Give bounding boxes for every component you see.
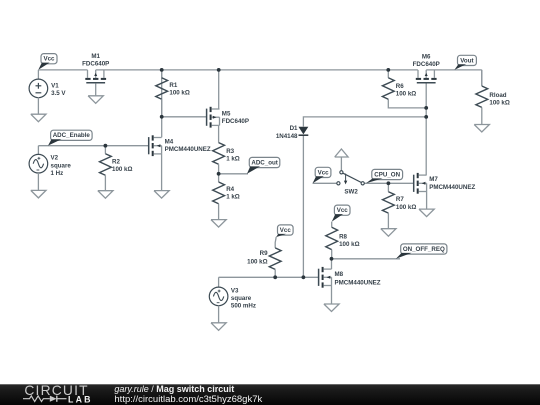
- wire Vout rail end bend: [481, 70, 483, 86]
- svg-text:R7: R7: [396, 196, 404, 203]
- wire ADC_out stub: [219, 173, 248, 175]
- svg-text:ADC_Enable: ADC_Enable: [53, 132, 91, 139]
- wire ADC_Enable net: [38, 146, 148, 155]
- svg-text:M8: M8: [335, 271, 344, 278]
- label R1 value: [169, 82, 189, 97]
- wire R6 bottom bend: [388, 99, 426, 108]
- svg-text:M4: M4: [165, 139, 174, 146]
- resistor Rload: [476, 70, 488, 125]
- svg-text:PMCM440UNEZ: PMCM440UNEZ: [165, 146, 211, 153]
- svg-text:Vout: Vout: [460, 57, 473, 64]
- svg-text:square: square: [231, 295, 252, 302]
- svg-text:1N4148: 1N4148: [276, 133, 298, 140]
- resistor R7: [383, 183, 395, 228]
- svg-text:V1: V1: [51, 83, 59, 90]
- resistor R6: [382, 70, 394, 99]
- svg-text:LAB: LAB: [68, 394, 93, 404]
- wire V1 top: [37, 70, 39, 79]
- wire D1 top bend: [303, 117, 426, 127]
- svg-text:http://circuitlab.com/c3t5hyz6: http://circuitlab.com/c3t5hyz68gk7k: [114, 394, 262, 405]
- net flag Vcc at V1: [38, 54, 57, 70]
- svg-text:M5: M5: [222, 110, 231, 117]
- svg-text:1 Hz: 1 Hz: [51, 170, 64, 177]
- wire M8 drain riser: [331, 259, 333, 269]
- svg-text:CPU_ON: CPU_ON: [374, 171, 400, 178]
- transistor M8: [319, 267, 332, 288]
- voltage source V3: [209, 287, 228, 306]
- label R6 value: [396, 83, 416, 98]
- svg-text:Vcc: Vcc: [280, 227, 292, 234]
- svg-text:Vcc: Vcc: [337, 207, 349, 214]
- resistor R3: [213, 125, 225, 173]
- wire ON_OFF_REQ stub: [332, 258, 401, 260]
- label Rload value: [489, 92, 509, 107]
- ground under R4: [211, 220, 226, 228]
- svg-text:FDC640P: FDC640P: [413, 61, 440, 68]
- ground under R2: [98, 191, 113, 199]
- svg-text:PMCM440UNEZ: PMCM440UNEZ: [429, 184, 475, 191]
- voltage source V1: [29, 79, 48, 98]
- svg-text:100 kΩ: 100 kΩ: [339, 241, 359, 248]
- ground under V3: [211, 306, 226, 331]
- transistor M6: [416, 70, 437, 83]
- svg-text:1 kΩ: 1 kΩ: [226, 194, 240, 201]
- svg-text:R4: R4: [226, 186, 234, 193]
- wire CPU_ON net: [364, 182, 413, 184]
- ground under Rload: [474, 125, 489, 133]
- diode D1: [299, 127, 309, 135]
- svg-text:100 kΩ: 100 kΩ: [169, 89, 189, 96]
- svg-text:square: square: [51, 162, 72, 169]
- svg-text:FDC640P: FDC640P: [82, 61, 109, 68]
- wire SW2 left contact: [313, 182, 337, 184]
- svg-text:M7: M7: [429, 176, 438, 183]
- wire Vcc to R9: [275, 237, 276, 248]
- ground under M7: [419, 192, 434, 217]
- label R9 value: [247, 250, 268, 266]
- svg-text:100 kΩ: 100 kΩ: [489, 100, 509, 107]
- resistor R4: [213, 174, 225, 220]
- wire Vcc top rail middle segment: [96, 69, 418, 71]
- svg-text:R6: R6: [396, 83, 404, 90]
- ground under M1 gate: [88, 83, 103, 103]
- resistor R9: [269, 248, 281, 277]
- svg-text:R3: R3: [226, 148, 234, 155]
- net flag Vcc at SW2: [313, 167, 331, 183]
- label R2 value: [112, 158, 132, 173]
- svg-text:R9: R9: [260, 250, 268, 257]
- svg-text:FDC640P: FDC640P: [222, 118, 249, 125]
- wire D1 cathode to M8 gate net: [302, 135, 304, 277]
- svg-text:R8: R8: [339, 234, 347, 241]
- label M8: [335, 271, 381, 286]
- svg-text:1 kΩ: 1 kΩ: [226, 156, 240, 163]
- label V1 value: [51, 83, 66, 98]
- svg-text:100 kΩ: 100 kΩ: [112, 166, 132, 173]
- ground under M4: [154, 154, 169, 198]
- svg-text:100 kΩ: 100 kΩ: [396, 204, 416, 211]
- label M5: [222, 110, 249, 125]
- net flag ON_OFF_REQ: [396, 244, 447, 259]
- wire M5 gate net: [162, 116, 207, 118]
- wire M5 drain riser: [218, 70, 220, 109]
- label M6: [413, 53, 440, 68]
- wire Vcc top rail right segment: [426, 69, 482, 71]
- svg-text:M1: M1: [91, 53, 100, 60]
- svg-text:R2: R2: [112, 158, 120, 165]
- svg-text:gary.rule / Mag switch circuit: gary.rule / Mag switch circuit: [114, 384, 234, 394]
- label D1 value: [276, 125, 298, 140]
- ground under V2: [31, 173, 46, 198]
- transistor M4: [149, 135, 162, 156]
- net flag Vcc at R9: [276, 225, 293, 237]
- wire M8 gate net: [219, 277, 319, 287]
- label M1: [82, 53, 109, 67]
- label R7 value: [396, 196, 416, 211]
- wire Vcc top rail left segment: [38, 69, 87, 71]
- svg-text:ADC_out: ADC_out: [251, 159, 277, 166]
- wire M4 drain riser: [161, 117, 163, 138]
- net flag ADC_Enable: [48, 130, 92, 145]
- svg-text:ON_OFF_REQ: ON_OFF_REQ: [403, 246, 445, 253]
- ground under M8: [324, 286, 339, 312]
- label R4 value: [226, 186, 240, 201]
- ground under R7: [381, 229, 396, 237]
- svg-text:D1: D1: [290, 125, 298, 132]
- svg-text:500 mHz: 500 mHz: [231, 303, 256, 310]
- wire Vcc to R8: [331, 222, 333, 228]
- wire R1 top node to M5 gate net down: [161, 70, 163, 117]
- svg-text:PMCM440UNEZ: PMCM440UNEZ: [335, 279, 381, 286]
- svg-text:Vcc: Vcc: [318, 169, 330, 176]
- label V3 value: [231, 287, 256, 309]
- switch SW2: [335, 149, 365, 185]
- svg-text:V2: V2: [51, 155, 59, 162]
- net flag ADC_out: [247, 157, 280, 173]
- transistor M5: [207, 107, 220, 128]
- net flag CPU_ON: [366, 169, 403, 183]
- label R8 value: [339, 234, 359, 249]
- svg-text:R1: R1: [169, 82, 177, 89]
- resistor R8: [326, 227, 338, 258]
- wire M6 gate stem: [425, 83, 427, 175]
- footer CircuitLab bar: [0, 383, 540, 405]
- ground under V1: [31, 97, 46, 121]
- svg-text:SW2: SW2: [344, 189, 358, 196]
- wire junction dots: [104, 68, 429, 279]
- svg-text:V3: V3: [231, 287, 239, 294]
- svg-text:Rload: Rload: [489, 92, 506, 99]
- net flag Vcc at R8: [332, 205, 350, 222]
- transistor M7: [414, 173, 427, 194]
- label R3 value: [226, 148, 240, 163]
- resistor R2: [100, 146, 112, 191]
- svg-text:M6: M6: [422, 53, 431, 60]
- voltage source V2: [29, 154, 48, 173]
- label SW2: [344, 189, 358, 196]
- svg-text:Vcc: Vcc: [43, 56, 55, 63]
- net flag Vout: [454, 55, 476, 70]
- label M4: [165, 139, 211, 154]
- svg-text:100 kΩ: 100 kΩ: [247, 259, 267, 266]
- label M7: [429, 176, 475, 191]
- resistor R1: [156, 70, 168, 117]
- label V2 value: [51, 155, 72, 178]
- svg-text:100 kΩ: 100 kΩ: [396, 90, 416, 97]
- transistor M1: [85, 70, 106, 83]
- svg-text:3.5 V: 3.5 V: [51, 90, 66, 97]
